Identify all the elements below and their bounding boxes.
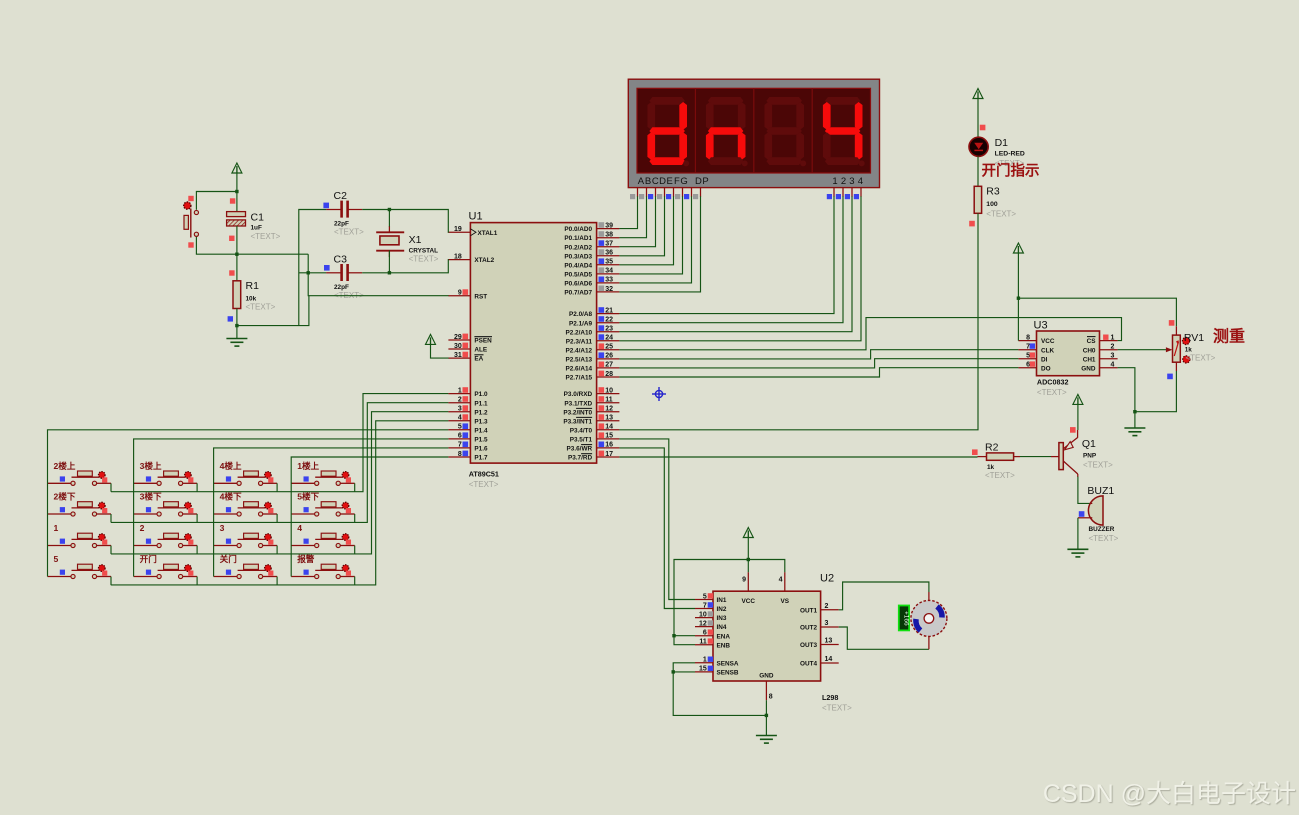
svg-text:14: 14 [825,656,833,663]
svg-text:U2: U2 [820,573,834,585]
U2 pin 6 ENA [695,635,713,637]
svg-text:6: 6 [458,433,462,440]
svg-text:P3.2/INT0: P3.2/INT0 [563,409,592,416]
svg-text:1: 1 [832,176,837,187]
wire: R2 to Q1 base [1020,456,1051,458]
svg-text:26: 26 [605,353,613,360]
display dark panel [637,88,871,173]
svg-text:P2.6/A14: P2.6/A14 [565,366,592,373]
svg-text:P2.3/A11: P2.3/A11 [566,338,593,345]
svg-text:EA: EA [474,356,483,363]
svg-text:ENB: ENB [717,642,731,649]
U1 pin 7 P1.6 [448,447,470,449]
svg-text:6: 6 [1026,362,1030,369]
wire: buzzer to ground [1077,518,1079,550]
U1 pin 24 P2.3/A11 [597,340,620,342]
wire: keypad column 2 bus to U1 P1.5 [134,439,449,577]
svg-text:开门指示: 开门指示 [982,162,1040,180]
svg-text:3楼上: 3楼上 [140,460,162,471]
U1 pin 37 P0.2/AD2 [597,246,620,248]
svg-text:33: 33 [605,277,613,284]
U1 pin 5 P1.4 [448,429,470,431]
svg-text:G: G [680,176,687,187]
svg-text:P0.7/AD7: P0.7/AD7 [564,290,592,297]
ground symbol (motor driver) [756,736,777,744]
wire: keypad row2 col3 right terminal drop [276,514,278,523]
push button keypad row1 col2 (3楼上) [134,471,198,485]
ground symbol (buzzer) [1067,549,1088,557]
wire: keypad row2 col2 right terminal drop [196,514,198,523]
svg-text:13: 13 [605,415,613,422]
svg-text:PSEN: PSEN [474,338,492,345]
display digit 4 common pin stub [860,188,862,197]
U3 pin 8 VCC [1018,340,1036,342]
U3 pin 1 CS [1100,340,1118,342]
reset button logic-state squares [188,196,193,201]
capacitor C1 1uF (polarized) [227,212,246,217]
push button keypad row2 col1 (2楼下) [48,502,112,516]
svg-text:CLK: CLK [1041,347,1055,354]
svg-text:P2.0/A8: P2.0/A8 [569,311,593,318]
wire: power to EA/PSEN/ALE [431,344,449,358]
svg-text:5: 5 [54,554,59,564]
U1 pin 33 P0.6/AD6 [597,282,620,284]
wire: U1 P2.5 to U3 CLK [619,350,1018,359]
wire: power to C1 top and button top [236,173,238,212]
push button keypad row3 col2 (2) [134,533,198,547]
U1 pin 35 P0.4/AD4 [597,264,620,266]
display digit 1 common pin stub [833,188,835,197]
U1 pin 36 P0.3/AD3 [597,255,620,257]
svg-text:D: D [659,176,666,187]
svg-text:2: 2 [458,397,462,404]
U1 pin 32 P0.7/AD7 [597,291,620,293]
U1 pin 28 P2.7/A15 [597,376,620,378]
svg-text:IN3: IN3 [717,615,727,622]
wire: keypad row1 bus to U1 P1.0 [111,394,448,492]
wire: U1 P3.7 to R2 [619,456,977,458]
push button keypad row1 col3 (4楼上) [214,471,278,485]
U1 pin 17 P3.7/RD [597,456,620,458]
svg-text:GND: GND [1081,365,1096,372]
svg-text:27: 27 [605,362,613,369]
svg-text:P1.3: P1.3 [474,418,488,425]
svg-text:P: P [702,176,708,187]
svg-text:P2.5/A13: P2.5/A13 [565,357,592,364]
svg-text:<TEXT>: <TEXT> [469,480,499,489]
display digit cell dividers [694,88,696,173]
svg-text:9: 9 [742,577,746,584]
R3 logic-state square [969,221,975,227]
svg-text:VS: VS [781,598,790,605]
U2 pin 7 IN2 [695,608,713,610]
svg-text:<TEXT>: <TEXT> [1089,534,1119,543]
svg-text:<TEXT>: <TEXT> [246,303,276,312]
push button keypad row3 col4 (4) [291,533,355,547]
svg-text:2: 2 [1111,344,1115,351]
svg-text:7: 7 [458,442,462,449]
wire: button bottom to RST node [196,237,308,254]
svg-text:E: E [667,176,673,187]
svg-text:U3: U3 [1034,320,1048,332]
wire: X1 top to C2 net [388,210,390,227]
wire: VCC rail to RV1 top [1018,298,1176,326]
U1 pin 26 P2.5/A13 [597,358,620,360]
svg-text:100: 100 [986,201,998,208]
U2 pin 1 SENSA [695,662,713,664]
svg-text:7: 7 [703,602,707,609]
motor RPM meter (green readout) [899,606,909,631]
U1 pin 22 P2.1/A9 [597,322,620,324]
svg-text:35: 35 [605,259,613,266]
svg-text:C: C [652,176,659,187]
U2 pin 2 OUT1 [821,609,839,611]
wire: C2 right to XTAL1 (net X1top) [362,210,448,233]
wire: C1 bottom to RST node [236,226,238,254]
motor driver U2 L298 body [713,591,821,681]
wire: keypad row4 col2 right terminal drop [196,577,198,586]
U3 pin 6 DO [1018,367,1036,369]
U2 pin 4 VS (top) [784,572,786,591]
svg-text:测重: 测重 [1213,327,1245,346]
svg-text:R3: R3 [986,186,1000,198]
svg-text:1k: 1k [987,464,995,471]
wire: U2 OUT2 to motor bottom [839,627,929,649]
svg-text:25: 25 [605,344,613,351]
reset button red actuator dot [184,202,191,209]
display segment pin D stub [664,188,666,197]
wire: keypad row1 col1 right terminal drop [110,483,112,491]
power symbol VCC (ADC) [1013,243,1023,253]
resistor R1 10k (vertical) [236,254,238,281]
ground symbol (ADC / RV1) [1124,428,1145,436]
buzzer BUZ1 symbol [1088,496,1103,525]
ground symbol (reset circuit) [226,339,247,347]
svg-text:P3.6/WR: P3.6/WR [567,446,593,453]
BUZ1 logic-state square [1079,511,1085,517]
display digit 1 segments [647,97,689,166]
svg-text:<TEXT>: <TEXT> [986,210,1016,219]
LED D1 (red, animated symbol) [969,137,988,156]
svg-text:GND: GND [759,673,774,680]
push button keypad row4 col4 (报警) [291,564,355,578]
wires: display digit pins 1-4 to U1 P2.0-P2.3 [619,196,834,313]
svg-text:3: 3 [220,523,225,533]
svg-text:RV1: RV1 [1184,332,1204,344]
wire: keypad row4 col1 right terminal drop [110,577,112,586]
svg-text:P3.4/T0: P3.4/T0 [570,427,593,434]
svg-text:2: 2 [841,176,846,187]
transistor Q1 PNP [1051,456,1059,458]
push button keypad row4 col3 (关门) [214,564,278,578]
DC motor M1 symbol [911,600,947,636]
U2 pin 13 OUT3 [821,644,839,646]
svg-text:10: 10 [605,387,613,394]
svg-text:31: 31 [454,352,462,359]
U1 pin 3 P1.2 [448,411,470,413]
svg-text:22pF: 22pF [334,284,349,291]
wire: keypad row1 col4 right terminal drop [354,483,356,491]
svg-text:D: D [695,176,702,187]
U1 pin 18 XTAL2 [448,259,470,261]
wire: keypad row4 col3 right terminal drop [276,577,278,586]
svg-text:SENSB: SENSB [717,670,739,677]
push button keypad row2 col4 (5楼下) [291,502,355,516]
U2 pin 9 VCC (top) [747,572,749,591]
push button keypad row2 col3 (4楼下) [214,502,278,516]
U2 pin 10 IN3 [695,617,713,619]
svg-text:CS: CS [1087,338,1097,345]
wire: power to Q1 emitter [1077,404,1079,430]
svg-text:P0.5/AD5: P0.5/AD5 [564,272,592,279]
svg-text:P3.7/RD: P3.7/RD [568,455,593,462]
svg-text:18: 18 [454,253,462,260]
svg-text:Q1: Q1 [1082,438,1096,450]
svg-text:38: 38 [605,232,613,239]
U1 pin 19 XTAL1 [448,231,470,233]
svg-text:P1.4: P1.4 [474,427,488,434]
svg-text:24: 24 [605,335,613,342]
wire: keypad row4 col4 right terminal drop [354,577,356,586]
svg-text:XTAL1: XTAL1 [478,230,498,237]
svg-text:<TEXT>: <TEXT> [409,255,439,264]
push button RESET (vertical) [194,210,198,214]
crystal X1 symbol [376,231,404,233]
wire: keypad column 4 bus to U1 P1.7 [291,457,448,577]
CSDN watermark [1043,774,1296,810]
svg-text:P0.2/AD2: P0.2/AD2 [564,244,592,251]
svg-text:28: 28 [605,371,613,378]
svg-text:5: 5 [703,593,707,600]
wire: C2 left rail down to ground net [299,210,326,326]
svg-text:12: 12 [605,406,613,413]
svg-text:P1.2: P1.2 [474,409,488,416]
wire: U1 P2.4 to U3 CS [619,318,1121,350]
wire: keypad row4 bus to U1 P1.3 [111,421,448,585]
wire: U1 P2.7 to U3 DO [619,368,1018,377]
wires: display segment pins A-DP to U1 P0.0-P0.7 [619,196,637,228]
U1 pin 8 P1.7 [448,456,470,458]
push button keypad row1 col4 (1楼上) [291,471,355,485]
svg-text:10: 10 [699,611,707,618]
wire: U2 OUT1 to motor top [839,582,929,610]
svg-text:30: 30 [454,343,462,350]
resistor R2 1k (horizontal) [978,456,987,458]
push button keypad row1 col1 (2楼上) [48,471,112,485]
origin marker (blue crosshair) [652,387,666,401]
svg-text:<TEXT>: <TEXT> [1037,388,1067,397]
svg-text:4: 4 [1111,362,1115,369]
svg-text:ENA: ENA [717,633,731,640]
svg-text:8: 8 [1026,334,1030,341]
U3 pin 3 CH1 [1100,358,1118,360]
wire: keypad column 3 bus to U1 P1.6 [214,448,449,577]
svg-text:P1.0: P1.0 [474,391,488,398]
svg-text:P1.6: P1.6 [474,446,488,453]
RV1 logic-state square [1167,374,1173,380]
wire: keypad row3 col3 right terminal drop [276,546,278,555]
svg-text:4: 4 [779,577,783,584]
svg-text:OUT1: OUT1 [800,607,817,614]
svg-text:VCC: VCC [742,598,756,605]
U1 pin 30 ALE [448,348,470,350]
svg-text:OUT4: OUT4 [800,661,817,668]
svg-text:22pF: 22pF [334,221,349,228]
U2 pin 14 OUT4 [821,662,839,664]
wire: U1 P3.5 to U2 IN1 [619,439,695,600]
svg-text:C2: C2 [334,190,348,202]
svg-text:D1: D1 [995,137,1009,149]
wire: RST node across to C3 left [307,254,309,273]
svg-text:VCC: VCC [1041,338,1055,345]
svg-text:8: 8 [458,451,462,458]
U1 pin 4 P1.3 [448,420,470,422]
svg-text:P1.5: P1.5 [474,437,488,444]
svg-text:C1: C1 [251,211,265,223]
display segment pin F stub [682,188,684,197]
potentiometer RV1 1k body [1169,320,1175,326]
svg-text:P2.1/A9: P2.1/A9 [569,320,593,327]
U1 pin 11 P3.1/TXD [597,402,620,404]
wire: keypad row2 col1 right terminal drop [110,514,112,523]
display segment pin B stub [646,188,648,197]
wire: power to U2 VCC pin 9 [747,537,749,572]
power symbol VCC (LED indicator) [973,89,983,99]
wire: keypad row3 bus to U1 P1.2 [111,412,448,554]
svg-text:U1: U1 [469,211,483,223]
svg-text:4楼上: 4楼上 [220,460,242,471]
display segment pin E stub [673,188,675,197]
svg-text:8: 8 [769,694,773,701]
Q1 logic-state square [1070,427,1076,433]
svg-text:P0.6/AD6: P0.6/AD6 [564,281,592,288]
RV1 adjust buttons (red dots) [1182,337,1189,344]
U1 pin 21 P2.0/A8 [597,313,620,315]
svg-text:BUZ1: BUZ1 [1087,485,1114,497]
svg-text:P2.7/A15: P2.7/A15 [565,375,592,382]
svg-text:12: 12 [699,620,707,627]
svg-text:OUT2: OUT2 [800,625,817,632]
C3 logic-state square [324,265,330,271]
svg-text:<TEXT>: <TEXT> [985,471,1015,480]
svg-text:LED-RED: LED-RED [995,150,1025,157]
U1 pin 2 P1.1 [448,402,470,404]
display segment pin DP stub [700,188,702,197]
svg-text:报警: 报警 [297,553,315,564]
svg-text:P0.3/AD3: P0.3/AD3 [564,253,592,260]
U1 pin 29 PSEN [448,339,470,341]
RV1 wiper arrow from U3 CH0 [1118,349,1166,351]
svg-text:B: B [645,176,651,187]
svg-text:L298: L298 [822,693,838,702]
wire: R3 bottom to U1 P3.4 (pin 14) [619,213,978,429]
svg-text:3: 3 [458,406,462,413]
microcontroller U1 AT89C51 body [470,223,596,464]
display digit 4 segments [823,97,865,166]
svg-text:CH0: CH0 [1083,347,1096,354]
D1 logic-state square [980,125,986,131]
push button keypad row2 col2 (3楼下) [134,502,198,516]
svg-text:10k: 10k [246,296,257,303]
wire: power down to U3 VCC pin 8 [1017,253,1019,341]
wire: power to LED D1 [977,98,979,138]
U1 pin 16 P3.6/WR [597,447,620,449]
svg-text:<TEXT>: <TEXT> [1186,354,1216,363]
R2 logic-state square [972,449,978,455]
U1 pin 1 P1.0 [448,393,470,395]
svg-text:DO: DO [1041,365,1051,372]
power symbol VCC (EA pin) [426,334,436,344]
display segment pin C stub [655,188,657,197]
svg-text:22: 22 [605,317,613,324]
U2 pin 15 SENSB [695,671,713,673]
svg-text:IN1: IN1 [717,597,727,604]
svg-text:6: 6 [703,630,707,637]
svg-text:3: 3 [1111,353,1115,360]
U1 pin 10 P3.0/RXD [597,393,620,395]
power symbol VCC (reset circuit) [232,163,242,173]
svg-text:IN2: IN2 [717,606,727,613]
push button keypad row4 col1 (5) [48,564,112,578]
svg-text:P3.5/T1: P3.5/T1 [570,437,593,444]
svg-text:<TEXT>: <TEXT> [1083,461,1113,470]
push button keypad row3 col3 (3) [214,533,278,547]
svg-text:P1.7: P1.7 [474,455,488,462]
U3 pin 7 CLK [1018,349,1036,351]
svg-text:4: 4 [297,523,302,533]
U1 pin 14 P3.4/T0 [597,429,620,431]
wire: keypad column 1 bus to U1 P1.4 [48,430,449,577]
svg-text:R1: R1 [246,280,260,292]
svg-text:DI: DI [1041,356,1048,363]
svg-text:A: A [638,176,645,187]
svg-text:P2.4/A12: P2.4/A12 [565,347,592,354]
svg-text:1楼上: 1楼上 [297,460,319,471]
svg-text:XTAL2: XTAL2 [474,257,494,264]
U1 pin 9 RST [448,295,470,297]
svg-text:39: 39 [605,222,613,229]
svg-text:13: 13 [825,638,833,645]
svg-text:19: 19 [454,226,462,233]
wire: X1 bottom to C3 net [388,250,390,272]
wire: ENA tap [674,635,695,637]
wire: keypad row3 col2 right terminal drop [196,546,198,555]
svg-text:11: 11 [605,397,613,404]
svg-text:P0.4/AD4: P0.4/AD4 [564,262,592,269]
wire: keypad row2 col4 right terminal drop [354,514,356,523]
svg-text:1: 1 [703,657,707,664]
U3 pin 2 CH0 [1100,349,1118,351]
push button keypad row4 col2 (开门) [134,564,198,578]
svg-text:4: 4 [458,415,462,422]
svg-text:关门: 关门 [220,553,238,564]
motor terminals (leads) [928,592,930,601]
svg-text:2: 2 [825,603,829,610]
svg-text:AT89C51: AT89C51 [469,470,499,479]
svg-text:CRYSTAL: CRYSTAL [409,248,439,255]
ADC U3 ADC0832 body [1037,331,1100,376]
svg-text:34: 34 [605,268,613,275]
svg-text:2楼上: 2楼上 [54,460,76,471]
svg-text:32: 32 [605,286,613,293]
4-digit 7-segment display body (frame) [628,79,879,187]
wire: U1 P3.6 to U2 IN2 [619,448,695,609]
svg-text:<TEXT>: <TEXT> [334,228,364,237]
svg-text:1: 1 [1111,334,1115,341]
wire: Q1 collector to buzzer [1078,477,1091,504]
svg-text:OUT3: OUT3 [800,642,817,649]
U1 pin 31 EA [448,357,470,359]
